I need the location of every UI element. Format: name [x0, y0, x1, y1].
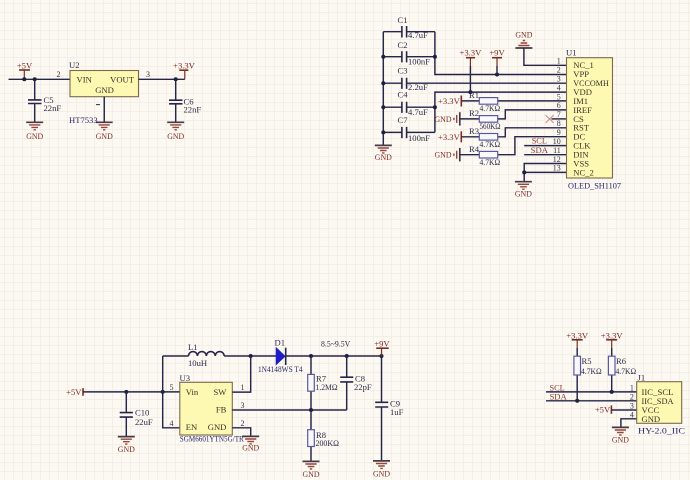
svg-text:1.2MΩ: 1.2MΩ: [316, 382, 338, 392]
svg-text:HT7533: HT7533: [69, 115, 98, 125]
svg-text:GND: GND: [515, 30, 532, 40]
svg-text:GND: GND: [208, 422, 227, 432]
junction at C6: [174, 77, 178, 81]
junction +3.3V/VDD: [468, 90, 472, 94]
svg-text:12: 12: [553, 155, 561, 164]
svg-text:R3: R3: [469, 126, 479, 136]
svg-text:4.7KΩ: 4.7KΩ: [480, 157, 501, 167]
svg-text:13: 13: [553, 164, 561, 173]
value 4.7KΩ: [581, 366, 602, 376]
svg-text:OLED_SH1107: OLED_SH1107: [568, 181, 622, 191]
wire VOUT to +3.3V: [139, 78, 185, 80]
power port +3.3V (R6): [601, 330, 624, 356]
svg-text:22nF: 22nF: [44, 103, 62, 113]
value 10uH: [188, 358, 207, 368]
svg-text:C2: C2: [398, 40, 408, 50]
wire SDA to pin 11: [524, 154, 566, 156]
svg-text:VOUT: VOUT: [110, 74, 135, 84]
designator D1: [275, 338, 286, 348]
label C7: [398, 115, 409, 125]
value 22pF: [354, 382, 372, 392]
net label SCL: [532, 135, 547, 145]
svg-text:HY-2.0_IIC: HY-2.0_IIC: [638, 425, 685, 435]
junction R6/SCL: [610, 390, 614, 394]
label C2: [398, 40, 408, 50]
wire VDD net (C4/C7 bus to pin 4): [435, 92, 567, 132]
power port +3.3V (R3): [438, 131, 461, 142]
junction +9V/VPP: [495, 73, 499, 77]
svg-text:100nF: 100nF: [408, 133, 430, 143]
resistor R2: [460, 110, 567, 122]
connector J1 body: [637, 382, 682, 424]
svg-text:GND: GND: [435, 150, 452, 160]
J1 pin numbers: [630, 384, 634, 420]
ground at top (inverted, to pin 1): [515, 30, 532, 48]
junction at C10: [124, 390, 128, 394]
svg-text:7: 7: [557, 110, 561, 119]
resistor R5: [574, 356, 581, 401]
svg-text:10: 10: [553, 137, 561, 146]
capacitor C5: [28, 79, 42, 122]
svg-text:2: 2: [557, 66, 561, 75]
pin number 3: [146, 70, 150, 79]
svg-text:2: 2: [630, 392, 634, 401]
inductor L1: [163, 352, 277, 356]
power port +9V: [374, 339, 390, 356]
svg-text:GND: GND: [96, 131, 113, 141]
comment HY-2.0_IIC: [638, 425, 685, 435]
wire VCC pin 3: [611, 409, 636, 411]
svg-text:R4: R4: [469, 144, 480, 154]
value 200KΩ: [316, 438, 340, 448]
svg-text:+9V: +9V: [374, 339, 390, 349]
ground under C10: [118, 437, 135, 454]
svg-text:9: 9: [557, 128, 561, 137]
wire GND pin 4: [621, 419, 637, 428]
svg-text:GND: GND: [435, 114, 452, 124]
svg-text:VIN: VIN: [77, 74, 93, 84]
svg-text:2: 2: [241, 419, 245, 428]
capacitor C10: [120, 392, 133, 437]
value 22nF: [44, 103, 62, 113]
capacitor C6: [169, 79, 183, 122]
U3 pin numbers: [170, 383, 245, 428]
svg-text:1: 1: [241, 383, 245, 392]
junction dots on GND bus: [381, 55, 385, 135]
wire GND bus left of capacitors: [382, 32, 384, 146]
resistor R1: [461, 98, 566, 105]
junction at +5V: [22, 77, 26, 81]
designator R6: [616, 356, 627, 366]
wire SDA net: [546, 400, 637, 402]
svg-text:+9V: +9V: [489, 48, 505, 58]
svg-text:GND: GND: [242, 442, 259, 452]
svg-text:8.5~9.5V: 8.5~9.5V: [321, 339, 351, 349]
pin number 1 (rotated dash): [96, 104, 100, 106]
junction R7/rail: [309, 354, 313, 358]
net label SDA: [531, 145, 549, 155]
capacitor C1: [383, 26, 435, 38]
svg-text:4.7KΩ: 4.7KΩ: [480, 103, 501, 113]
junction C4/VDD: [433, 105, 437, 109]
junction SW/rail: [249, 354, 253, 358]
svg-text:1uF: 1uF: [390, 407, 404, 417]
junction at C5: [33, 77, 37, 81]
power port +3.3V: [173, 61, 196, 80]
designator U1: [566, 48, 577, 58]
power port +3.3V (R5): [566, 330, 589, 356]
op-amp U2 body: [70, 71, 139, 97]
svg-text:200KΩ: 200KΩ: [316, 438, 340, 448]
pin name GND: [95, 85, 114, 95]
svg-text:U1: U1: [566, 48, 577, 58]
pin 7 stub: [552, 118, 567, 120]
designator R8: [316, 430, 326, 440]
power port +3.3V (R1): [438, 96, 461, 107]
capacitor C2: [383, 51, 435, 62]
label C3: [398, 65, 408, 75]
power port +5V (boost input): [66, 387, 83, 397]
capacitor C8: [340, 356, 353, 410]
svg-text:C4: C4: [398, 89, 409, 99]
comment HT7533: [69, 115, 98, 125]
U1 pin numbers 1-13: [553, 57, 561, 173]
svg-text:2: 2: [57, 70, 61, 79]
wire SCL net: [546, 391, 637, 393]
svg-text:+3.3V: +3.3V: [173, 61, 196, 71]
svg-text:GND: GND: [26, 131, 43, 141]
label C6: [184, 97, 195, 107]
power port +9V (over VPP): [489, 48, 505, 75]
ground under U1: [515, 182, 532, 199]
designator U3: [180, 373, 191, 383]
svg-text:3: 3: [630, 401, 634, 410]
junction at L1/EN branch: [161, 390, 165, 394]
resistor R7: [308, 356, 315, 410]
wire +5V to Vin: [83, 391, 180, 393]
svg-text:+5V: +5V: [17, 61, 33, 71]
svg-text:D1: D1: [275, 338, 286, 348]
designator J1: [638, 373, 646, 383]
svg-text:1: 1: [557, 57, 561, 66]
label C1: [398, 15, 408, 25]
svg-text:22uF: 22uF: [135, 417, 153, 427]
wire VPP net (C1/C2 bus to pin 2): [435, 32, 567, 75]
svg-text:22nF: 22nF: [184, 104, 202, 114]
ground under C9: [373, 461, 390, 478]
svg-text:1N4148WS T4: 1N4148WS T4: [258, 364, 303, 374]
svg-text:5: 5: [170, 383, 174, 392]
value 4.7KΩ: [480, 103, 501, 113]
wire U2 GND pin: [103, 97, 105, 123]
svg-text:GND: GND: [303, 469, 320, 479]
wire SW to rail: [232, 356, 250, 392]
svg-text:GND: GND: [373, 468, 390, 478]
capacitor C4: [383, 102, 435, 113]
designator L1: [188, 342, 198, 352]
value 22nF: [184, 104, 202, 114]
svg-text:4: 4: [170, 419, 174, 428]
power ground port (R4): [435, 148, 460, 161]
svg-text:10uH: 10uH: [188, 358, 207, 368]
wire VCCOMH net (C3 to pin 3): [407, 82, 567, 84]
svg-text:560KΩ: 560KΩ: [480, 121, 501, 131]
value 4.7KΩ: [480, 139, 501, 149]
comment 1N4148WS T4: [258, 364, 303, 374]
svg-text:J1: J1: [638, 373, 646, 383]
connector U1 body: [567, 58, 613, 178]
svg-text:R1: R1: [469, 90, 479, 100]
comment SGM6601YTN5G/TR: [180, 434, 244, 444]
ground under U2: [96, 122, 113, 141]
svg-text:SDA: SDA: [550, 391, 568, 401]
value 560KΩ: [480, 121, 501, 131]
svg-text:+3.3V: +3.3V: [438, 96, 461, 106]
ground under C6: [167, 122, 184, 141]
resistor R4: [460, 137, 567, 158]
wire L1 branch and EN feed: [163, 356, 180, 428]
svg-text:4: 4: [630, 410, 634, 419]
U1 pin names: [573, 60, 609, 177]
svg-text:+5V: +5V: [66, 387, 82, 397]
net label SDA: [550, 391, 568, 401]
svg-text:Vin: Vin: [186, 387, 199, 397]
svg-text:+3.3V: +3.3V: [460, 48, 483, 58]
power port +3.3V (over VDD): [460, 48, 483, 93]
designator R3: [469, 126, 479, 136]
diode D1: [276, 348, 286, 365]
wire FB net: [232, 409, 346, 411]
svg-text:GND: GND: [375, 152, 392, 162]
designator C9: [390, 399, 400, 409]
wire VSS/NC2 to ground: [524, 164, 566, 182]
junction VSS bus: [522, 170, 526, 174]
svg-text:EN: EN: [186, 422, 198, 432]
value 1.2MΩ: [316, 382, 338, 392]
power port +5V (VCC): [595, 405, 612, 415]
wire U3 GND pin 2: [232, 428, 250, 437]
power ground port (R2): [435, 112, 460, 125]
svg-text:L1: L1: [188, 342, 198, 352]
svg-text:U3: U3: [180, 373, 191, 383]
value 100nF: [408, 57, 430, 67]
label C5: [44, 95, 54, 105]
value 1uF: [390, 407, 404, 417]
power port +5V: [17, 61, 33, 80]
pin name VIN: [77, 74, 93, 84]
value 4.7uF: [408, 107, 428, 117]
net label SCL: [550, 383, 565, 393]
svg-text:GND: GND: [95, 85, 114, 95]
ground under J1: [612, 427, 629, 444]
wire SCL to pin 10: [524, 145, 566, 147]
svg-text:4.7KΩ: 4.7KΩ: [581, 366, 602, 376]
value 4.7KΩ: [616, 366, 637, 376]
designator C8: [355, 374, 365, 384]
junction +9V/C9: [380, 354, 384, 358]
resistor R8: [308, 410, 315, 461]
value 4.7KΩ: [480, 157, 501, 167]
junction FB/R7/R8: [309, 408, 313, 412]
svg-text:4.7KΩ: 4.7KΩ: [480, 139, 501, 149]
svg-text:+5V: +5V: [595, 405, 611, 415]
pin number 2: [57, 70, 61, 79]
ground under C5: [26, 122, 43, 141]
J1 pin names: [642, 387, 675, 424]
svg-text:U2: U2: [69, 60, 80, 70]
pin name VOUT: [110, 74, 135, 84]
svg-text:100nF: 100nF: [408, 57, 430, 67]
junction R5/SDA: [575, 399, 579, 403]
value 2.2uF: [408, 82, 428, 92]
value 100nF: [408, 133, 430, 143]
svg-text:4.7uF: 4.7uF: [408, 107, 428, 117]
svg-text:3: 3: [557, 75, 561, 84]
svg-text:SCL: SCL: [532, 135, 547, 145]
regulator U3 body: [180, 382, 233, 435]
value 22uF: [135, 417, 153, 427]
designator U2: [69, 60, 80, 70]
svg-text:SDA: SDA: [531, 145, 549, 155]
svg-text:GND: GND: [642, 414, 661, 424]
net label 8.5~9.5V: [321, 339, 351, 349]
svg-text:C1: C1: [398, 15, 408, 25]
svg-text:+3.3V: +3.3V: [438, 132, 461, 142]
svg-text:+3.3V: +3.3V: [601, 330, 624, 340]
svg-text:3: 3: [146, 70, 150, 79]
svg-text:C7: C7: [398, 115, 409, 125]
designator R5: [582, 356, 592, 366]
designator R7: [316, 374, 327, 384]
capacitor C9: [375, 356, 388, 461]
wire GND to pin 1: [524, 48, 567, 66]
svg-text:C3: C3: [398, 65, 408, 75]
svg-text:3: 3: [241, 401, 245, 410]
resistor R3: [461, 128, 566, 140]
no-connect X on pin 7: [546, 115, 554, 123]
ground under capacitor bus: [375, 145, 392, 161]
svg-text:SW: SW: [214, 387, 228, 397]
svg-text:GND: GND: [167, 131, 184, 141]
capacitor C7: [383, 127, 435, 138]
svg-text:SGM6601YTN5G/TR: SGM6601YTN5G/TR: [180, 434, 244, 444]
designator R2: [469, 108, 479, 118]
svg-text:6: 6: [557, 101, 561, 110]
comment OLED_SH1107: [568, 181, 622, 191]
svg-text:FB: FB: [216, 405, 227, 415]
svg-text:NC_2: NC_2: [573, 167, 594, 177]
wire +5V input net: [9, 78, 71, 80]
designator R1: [469, 90, 479, 100]
svg-text:4.7uF: 4.7uF: [408, 30, 428, 40]
svg-text:4.7KΩ: 4.7KΩ: [616, 366, 637, 376]
svg-text:11: 11: [553, 146, 561, 155]
svg-text:22pF: 22pF: [354, 382, 372, 392]
junction C2/VPP: [433, 55, 437, 59]
svg-text:R6: R6: [616, 356, 627, 366]
wire +9V rail: [286, 355, 382, 357]
svg-text:+3.3V: +3.3V: [566, 330, 589, 340]
resistor R6: [608, 356, 615, 392]
U3 pin names: [186, 387, 227, 432]
svg-text:R2: R2: [469, 108, 479, 118]
svg-text:GND: GND: [118, 444, 135, 454]
designator R4: [469, 144, 480, 154]
value 4.7uF: [408, 30, 428, 40]
svg-text:GND: GND: [612, 434, 629, 444]
label C10: [135, 408, 149, 418]
svg-text:1: 1: [630, 384, 634, 393]
svg-text:5: 5: [557, 92, 561, 101]
ground under R8: [303, 461, 320, 479]
svg-text:4: 4: [557, 83, 561, 92]
junction C8/rail: [345, 354, 349, 358]
ground under U3 pin 2: [242, 436, 259, 452]
label C4: [398, 89, 409, 99]
svg-text:GND: GND: [515, 189, 532, 199]
svg-text:R5: R5: [582, 356, 592, 366]
svg-text:8: 8: [557, 119, 561, 128]
capacitor C3: [383, 78, 406, 89]
